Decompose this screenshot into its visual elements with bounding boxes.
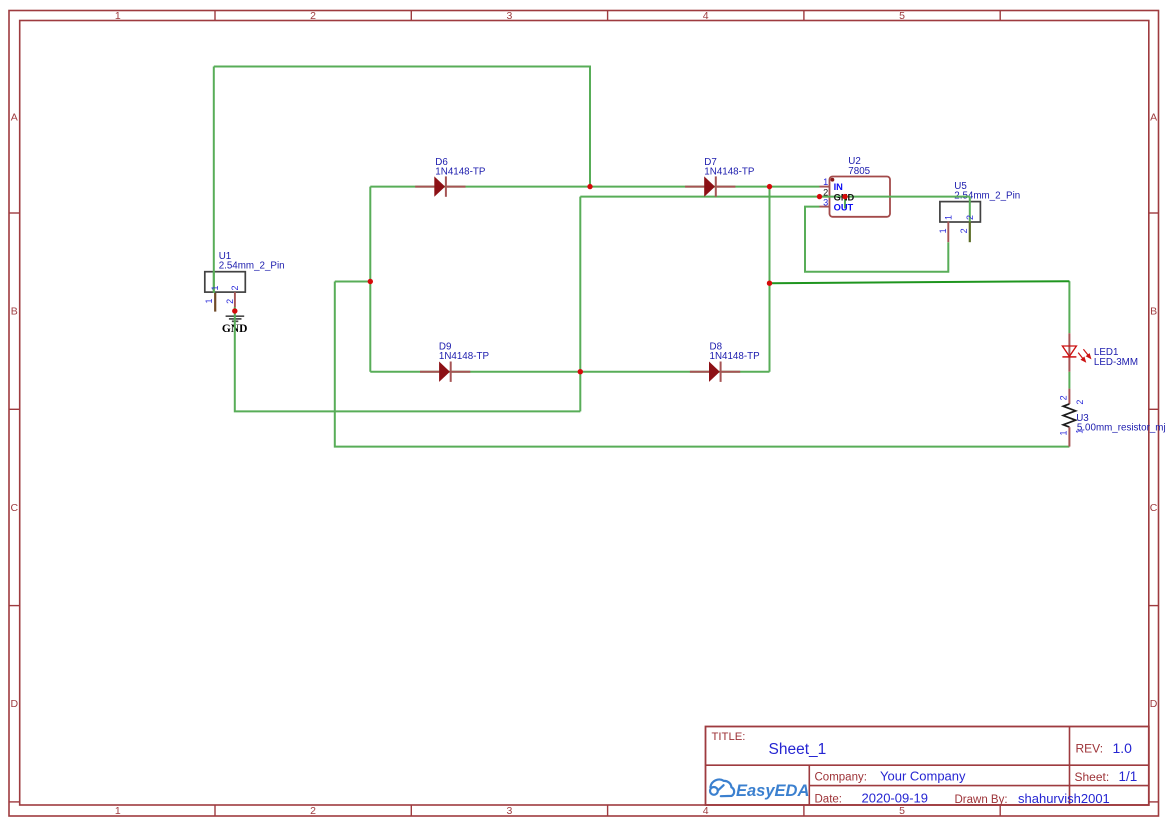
svg-text:5: 5	[899, 805, 905, 817]
svg-text:Company:: Company:	[815, 772, 867, 784]
svg-text:3: 3	[823, 197, 828, 207]
svg-text:1N4148-TP: 1N4148-TP	[439, 351, 490, 362]
svg-text:2: 2	[230, 285, 240, 290]
svg-text:1: 1	[938, 228, 948, 233]
svg-text:2020-09-19: 2020-09-19	[862, 790, 929, 805]
svg-text:3: 3	[506, 10, 512, 22]
svg-text:1.0: 1.0	[1113, 740, 1133, 756]
svg-text:1: 1	[944, 215, 954, 220]
svg-text:EasyEDA: EasyEDA	[736, 782, 809, 800]
svg-text:7805: 7805	[848, 166, 870, 177]
svg-text:5.00mm_resistor_mj: 5.00mm_resistor_mj	[1077, 422, 1166, 433]
svg-text:1: 1	[204, 298, 214, 303]
svg-text:2: 2	[1075, 400, 1085, 405]
svg-text:1: 1	[1075, 429, 1085, 434]
svg-text:2: 2	[310, 805, 316, 817]
svg-text:A: A	[1150, 111, 1157, 123]
svg-text:1: 1	[1058, 430, 1068, 435]
svg-text:Drawn By:: Drawn By:	[955, 794, 1008, 806]
svg-text:1/1: 1/1	[1119, 769, 1138, 784]
svg-text:C: C	[1150, 502, 1158, 514]
svg-text:Your Company: Your Company	[880, 769, 966, 784]
svg-text:B: B	[1150, 306, 1157, 318]
svg-text:1: 1	[210, 285, 220, 290]
svg-text:1N4148-TP: 1N4148-TP	[704, 166, 755, 177]
svg-text:2: 2	[959, 228, 969, 233]
svg-text:1N4148-TP: 1N4148-TP	[710, 351, 761, 362]
svg-text:2: 2	[310, 10, 316, 22]
svg-text:TITLE:: TITLE:	[712, 731, 746, 743]
svg-text:1: 1	[115, 805, 121, 817]
svg-text:2: 2	[225, 299, 235, 304]
svg-text:B: B	[11, 306, 18, 318]
svg-text:D: D	[1150, 698, 1158, 710]
svg-text:2.54mm_2_Pin: 2.54mm_2_Pin	[219, 260, 285, 271]
svg-text:1: 1	[823, 177, 828, 187]
svg-text:3: 3	[506, 805, 512, 817]
svg-text:A: A	[11, 111, 18, 123]
svg-text:C: C	[11, 502, 19, 514]
svg-text:1: 1	[115, 10, 121, 22]
svg-text:OUT: OUT	[834, 202, 854, 212]
svg-text:IN: IN	[834, 182, 844, 192]
svg-text:4: 4	[703, 805, 709, 817]
svg-text:2: 2	[965, 215, 975, 220]
svg-text:1N4148-TP: 1N4148-TP	[435, 166, 486, 177]
svg-text:4: 4	[703, 10, 709, 22]
svg-text:Date:: Date:	[815, 793, 843, 805]
svg-text:Sheet:: Sheet:	[1075, 770, 1110, 784]
svg-text:2: 2	[823, 187, 828, 197]
svg-text:shahurvish2001: shahurvish2001	[1018, 791, 1110, 806]
svg-text:D: D	[11, 698, 19, 710]
svg-text:LED-3MM: LED-3MM	[1094, 357, 1138, 368]
svg-text:5: 5	[899, 10, 905, 22]
svg-text:Sheet_1: Sheet_1	[769, 741, 827, 758]
svg-text:REV:: REV:	[1076, 742, 1104, 756]
svg-text:2: 2	[1058, 395, 1068, 400]
